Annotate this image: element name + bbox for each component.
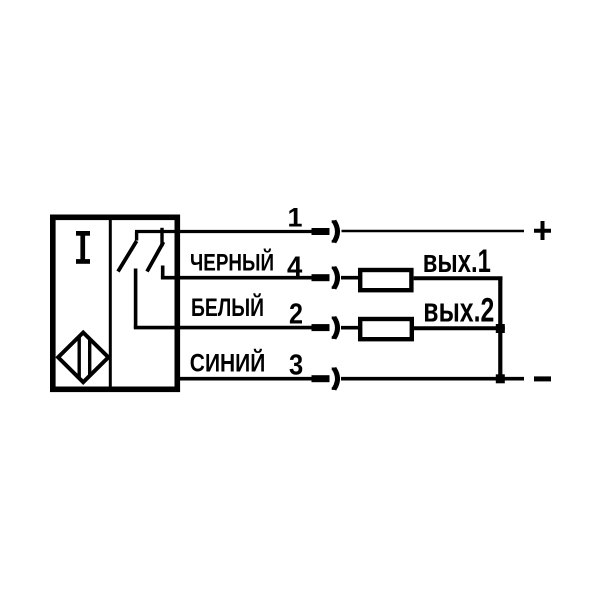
label pin 4	[287, 251, 302, 283]
svg-text:ЧЕРНЫЙ: ЧЕРНЫЙ	[190, 249, 274, 277]
label white wire	[191, 292, 264, 322]
sensor internal divider	[109, 220, 112, 387]
plus terminal	[534, 221, 551, 240]
wire load 1 to junction	[414, 276, 503, 280]
switch contact 2 fixed terminal	[161, 266, 165, 278]
svg-text:СИНИЙ: СИНИЙ	[190, 348, 265, 378]
connector pin 2 socket	[332, 317, 338, 338]
switch contact 2 top stub	[160, 228, 163, 247]
connector pin 2 plug	[312, 324, 330, 331]
blue wire (pin 3)	[177, 377, 312, 381]
wire load 2 to junction	[414, 326, 505, 330]
connector pin 1 plug	[312, 228, 330, 235]
label black wire	[190, 249, 274, 277]
load resistor output 2	[360, 319, 412, 339]
svg-text:1: 1	[288, 203, 303, 233]
junction vertical wire	[498, 277, 502, 380]
wire socket to load 1	[341, 276, 358, 280]
label blue wire	[190, 348, 265, 378]
connector pin 3 plug	[312, 375, 330, 382]
svg-text:4: 4	[287, 251, 302, 283]
svg-text:2: 2	[289, 299, 303, 331]
label output 1	[423, 243, 491, 279]
svg-text:вых.1: вых.1	[423, 243, 491, 279]
switch contact 1 top stub	[135, 232, 138, 241]
label pin 2	[289, 299, 303, 331]
wire to minus	[341, 377, 524, 381]
load resistor output 1	[360, 270, 411, 290]
label output 2	[423, 292, 494, 330]
black wire (pin 4)	[161, 276, 313, 280]
svg-text:БЕЛЫЙ: БЕЛЫЙ	[191, 292, 264, 322]
minus terminal	[534, 376, 551, 381]
inductive symbol I	[76, 231, 90, 264]
connector pin 3 socket	[332, 368, 338, 389]
connector pin 4 plug	[312, 274, 330, 281]
label pin 3	[289, 349, 303, 381]
switch contact 1 blade	[118, 241, 137, 272]
switch contact 1 fixed terminal	[134, 269, 138, 328]
svg-text:вых.2: вых.2	[423, 292, 494, 330]
switch contact 2 blade	[147, 242, 164, 272]
sensor body outline	[53, 217, 178, 389]
svg-text:3: 3	[289, 349, 303, 381]
sensor diamond symbol	[58, 333, 108, 383]
wire pin1 (plus feed)	[135, 230, 313, 233]
connector pin 1 socket	[332, 221, 338, 242]
wire socket to load 2	[341, 326, 358, 330]
connector pin 4 socket	[332, 267, 338, 288]
junction dot row 2	[496, 324, 505, 333]
wire to plus	[342, 230, 525, 233]
junction dot row 3	[496, 374, 505, 383]
label pin 1	[288, 203, 303, 233]
white wire (pin 2)	[134, 326, 313, 330]
